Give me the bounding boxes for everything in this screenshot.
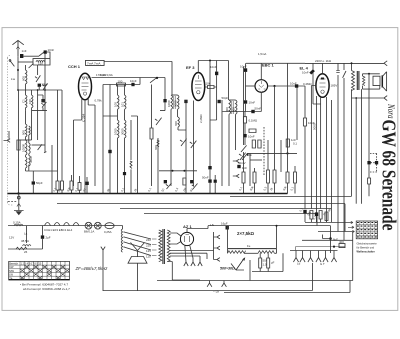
resistor 0,1uF 289 — [286, 139, 289, 147]
svg-text:10nF: 10nF — [249, 101, 256, 105]
rail output y63 — [305, 62, 384, 64]
wire 245 tail — [245, 72, 247, 100]
wire field choke left — [227, 226, 229, 254]
trimmer 193 — [190, 141, 197, 148]
trimmer 192 — [192, 184, 198, 190]
wire rail1 drop x172 — [171, 61, 173, 95]
socket table cols — [360, 221, 374, 239]
field choke winding R — [258, 251, 274, 254]
wire primary top — [351, 63, 353, 70]
wire col320 — [320, 97, 322, 209]
svg-text:C1: C1 — [22, 99, 26, 103]
wire 215 stub — [214, 175, 216, 194]
antenna A — [12, 40, 23, 56]
switch band mid2 — [44, 145, 46, 153]
wire col345 — [344, 204, 346, 232]
wire secondary tap 2 — [170, 253, 207, 259]
coil 600 antenna — [26, 65, 28, 90]
capacitor C-ant 1nF — [20, 54, 23, 58]
node Lw — [17, 69, 19, 71]
svg-text:Wellenschalter: Wellenschalter — [357, 250, 375, 254]
svg-text:10nF: 10nF — [48, 48, 55, 52]
capacitor 10nF blob b — [214, 180, 217, 183]
capacitor blob ant2 — [44, 50, 47, 53]
wire selector to loop — [137, 263, 139, 291]
wire 50pF stub — [32, 171, 34, 194]
heater arc EBC1 — [64, 223, 70, 226]
svg-text:10nF: 10nF — [240, 65, 247, 69]
wire 8uF drop — [330, 226, 332, 253]
wire 2uF column — [42, 226, 44, 249]
wire col305 — [304, 86, 306, 118]
wire col57 — [57, 90, 59, 181]
heater arc EF3 — [54, 223, 60, 226]
svg-text:AZ 1: AZ 1 — [183, 224, 192, 229]
CCH1 internal electrodes — [82, 77, 89, 95]
AZ1 internals — [185, 235, 190, 243]
pot arrow vol — [242, 67, 248, 173]
arrow to table c — [352, 230, 354, 232]
wire second rail y249 — [8, 248, 43, 250]
svg-text:CCH1 EF3 EBC1 EL4: CCH1 EF3 EBC1 EL4 — [44, 228, 73, 232]
wire col352 — [352, 232, 354, 281]
resistor r79 — [78, 176, 81, 194]
speaker terminal fork 2 — [214, 246, 220, 250]
wire secondary bottom tap — [167, 262, 200, 281]
dashed link bottom — [370, 171, 377, 173]
node y90 a — [17, 89, 19, 91]
resistor r326b — [325, 212, 328, 222]
wire speaker bottom rail — [352, 97, 385, 99]
heater fork b — [191, 262, 195, 266]
svg-text:3000: 3000 — [120, 128, 124, 135]
svg-text:CCH 1: CCH 1 — [68, 64, 81, 69]
resistor 400ohm box — [339, 244, 345, 248]
speaker magnet bar — [381, 75, 383, 87]
wire col369 lower — [368, 184, 370, 196]
socket table rows — [356, 225, 377, 236]
capacitor blob fork — [237, 165, 240, 168]
wire selector feed — [122, 226, 124, 230]
capacitor 2uF blob — [41, 235, 44, 238]
ground bus — [7, 193, 288, 195]
svg-text:• Bei Fernempf. 6304687–7027: • Bei Fernempf. 6304687–7027 4,7 — [20, 283, 68, 287]
trimmer IF2 — [239, 153, 246, 160]
coil L4 3000 — [29, 143, 30, 171]
resistor r320b — [319, 211, 322, 223]
svg-text:1,0: 1,0 — [263, 263, 267, 267]
table columns — [20, 261, 65, 280]
wire y160 — [250, 159, 262, 161]
svg-text:~ Lb: ~ Lb — [213, 290, 219, 294]
wire col351 down — [351, 98, 353, 196]
svg-text:Bereich: Bereich — [9, 262, 18, 266]
wire col281 — [280, 140, 282, 172]
coil IF1a — [171, 95, 173, 186]
resistor R-left 1 — [17, 140, 20, 150]
svg-text:185V: 185V — [331, 84, 338, 88]
svg-text:400: 400 — [339, 240, 344, 244]
resistor 10k EF3 — [205, 86, 217, 89]
node primary top — [351, 62, 353, 64]
wire 10nF drop 245 — [245, 63, 247, 68]
node y171 b — [183, 170, 185, 172]
wire 165 drop — [160, 95, 165, 111]
field choke core — [228, 248, 276, 250]
wire top IF1 — [172, 94, 178, 96]
wire EF3 plate top — [198, 61, 228, 101]
tube EF3 — [192, 73, 205, 101]
coil osc 3000 — [125, 120, 127, 172]
svg-text:220: 220 — [146, 244, 151, 248]
node y90 c — [44, 89, 46, 91]
node circle ground — [17, 196, 20, 199]
capacitor box 50 — [259, 258, 262, 268]
wire col52 — [51, 145, 53, 194]
svg-text:600: 600 — [154, 145, 158, 150]
svg-text:220V o. 2kΩ: 220V o. 2kΩ — [315, 59, 332, 63]
capacitor 10nF diagonal blob — [309, 69, 315, 74]
coil pair 900 — [26, 124, 28, 140]
wire AZ1 cathode out — [187, 226, 208, 233]
resistor r295 — [294, 166, 297, 194]
rail y203 — [57, 203, 345, 205]
wire rail2 x140 drop — [139, 78, 141, 85]
switch S-ant — [39, 52, 45, 56]
wire blob87 stub — [86, 177, 88, 194]
table X marks r2 — [25, 265, 65, 268]
switch band mid — [38, 144, 42, 150]
capacitor blob dash a — [367, 161, 370, 164]
wire ground drop — [18, 194, 20, 211]
switch vol — [241, 145, 247, 152]
svg-text:101: 101 — [120, 102, 124, 107]
wire EBC left rail — [246, 85, 255, 87]
node 330 — [329, 237, 332, 240]
svg-text:28pF: 28pF — [42, 83, 49, 87]
dashed vert right — [376, 154, 378, 173]
svg-text:170 kHz: 170 kHz — [96, 73, 107, 77]
resistor r62 — [61, 181, 64, 194]
rail y208 — [120, 208, 332, 210]
resistor r268 — [267, 140, 270, 194]
svg-text:400: 400 — [225, 107, 229, 112]
svg-text:600: 600 — [22, 76, 26, 81]
fork row 2 — [300, 251, 305, 263]
hum pot wire — [231, 264, 244, 271]
svg-text:1000: 1000 — [167, 100, 171, 107]
wire col193 — [193, 101, 195, 187]
svg-text:3000: 3000 — [29, 156, 33, 163]
wire 124 tail — [124, 175, 126, 193]
svg-text:für Bereich und: für Bereich und — [357, 246, 375, 250]
node 400 link — [333, 246, 335, 248]
resistor r311b — [310, 211, 313, 223]
lamp 1 cross — [86, 223, 91, 228]
input coil box 150 — [33, 59, 50, 65]
resistor r287 — [286, 172, 289, 194]
wire secondary bottom — [363, 86, 380, 90]
output transformer core — [357, 71, 359, 90]
vert coil 600 — [157, 138, 159, 194]
tube AZ1 — [180, 232, 193, 245]
resistor box 305 — [303, 118, 306, 209]
grid rail y77 from CCH1 — [92, 77, 166, 79]
trimmer IF1 — [180, 139, 187, 146]
dial lamp 1 — [85, 222, 92, 229]
wire IF2 top — [229, 99, 236, 101]
capacitor blob 316b — [315, 212, 318, 216]
svg-text:10k: 10k — [206, 82, 211, 86]
svg-text:50pF: 50pF — [36, 181, 43, 185]
svg-text:10nF: 10nF — [302, 71, 309, 75]
svg-text:LW: LW — [9, 273, 13, 277]
coil L1 101 — [26, 90, 28, 111]
capacitor blob 219 — [218, 100, 221, 103]
coil 150 bumps — [36, 61, 45, 62]
trimmer 165 — [166, 183, 172, 189]
wire choke mid — [245, 252, 259, 254]
wire col245 b — [244, 123, 246, 134]
svg-text:Nora: Nora — [386, 103, 396, 119]
coil osc 1000 — [118, 120, 120, 194]
fork row 5 — [323, 251, 328, 263]
wire col151 — [151, 85, 153, 187]
svg-text:1nF: 1nF — [22, 49, 27, 53]
wire col326 — [326, 97, 328, 222]
wire col317 — [316, 214, 318, 226]
wire col137 — [137, 116, 139, 194]
heater fork c — [198, 262, 202, 266]
capacitor blob dash b — [375, 161, 378, 164]
tube EL4 — [316, 74, 329, 98]
heater rail left — [8, 225, 123, 227]
svg-text:110: 110 — [146, 255, 151, 259]
capacitor 50 series 338 — [336, 71, 339, 73]
connector fork b — [233, 174, 239, 178]
wire y171 — [26, 170, 58, 172]
switch band 2 — [29, 63, 34, 68]
trimmer 43 — [37, 95, 46, 111]
EL4 internals — [320, 79, 326, 93]
capacitor 10nF blob right — [295, 84, 298, 87]
wire col245 — [244, 112, 246, 117]
capacitor box small — [249, 129, 256, 133]
wire col356 — [355, 98, 357, 204]
arrow to table b — [348, 226, 354, 228]
wire col287 — [287, 63, 289, 172]
svg-text:10nF: 10nF — [248, 135, 255, 139]
selector housing — [128, 257, 147, 264]
wire col250 — [249, 153, 251, 186]
trimmer T1 — [35, 75, 40, 82]
wire x165 drop — [164, 78, 166, 96]
wire col297 — [296, 88, 298, 141]
wire y116 seg1 — [103, 115, 138, 117]
capacitor blob 192 low — [190, 180, 193, 183]
coil IF2b — [236, 100, 238, 150]
capacitor blob 165 low — [164, 180, 167, 183]
tube CCH1 — [79, 73, 92, 100]
node y90 b — [37, 89, 39, 91]
heater fork a — [184, 262, 188, 266]
node speaker top — [368, 73, 370, 75]
table wave-ranges outline — [9, 261, 70, 280]
wire EL4 grid feed — [313, 63, 321, 104]
socket table grid — [356, 221, 377, 239]
rail y231 — [318, 231, 353, 233]
coil IF1b — [178, 95, 180, 117]
wire col361 — [361, 89, 363, 204]
wire step 322 — [323, 235, 331, 239]
svg-text:2×7,5kΩ: 2×7,5kΩ — [237, 231, 255, 236]
svg-text:900: 900 — [22, 130, 26, 135]
wire col245 c — [244, 137, 246, 145]
wire secondary to AZ1 anode b — [170, 242, 181, 245]
dial lamp 2 — [94, 222, 101, 229]
wire AZ1 heater drop — [185, 245, 193, 262]
svg-text:ab Fernempf. 630369–2068 2+1: ab Fernempf. 630369–2068 2+1,7 — [23, 287, 70, 291]
coil L3 10000 — [26, 140, 28, 171]
node y153 — [286, 152, 288, 154]
voltage selector coil — [121, 229, 122, 252]
svg-text:2µF: 2µF — [46, 236, 51, 240]
wire left main column — [18, 90, 20, 194]
svg-text:1 2 3 4 5 6 7 8 9 10: 1 2 3 4 5 6 7 8 9 10 — [21, 262, 42, 265]
wire caps top — [252, 253, 283, 271]
resistor zig 131 — [130, 120, 132, 194]
capacitor blob pair 210 — [208, 166, 211, 169]
svg-text:50nF: 50nF — [202, 176, 209, 180]
power transformer primary — [159, 230, 162, 262]
wire y145 — [32, 144, 46, 146]
node col356 — [355, 97, 357, 99]
dashed link top — [370, 153, 377, 155]
rail EBC top y63 — [246, 62, 305, 64]
selector fan 110 — [124, 247, 151, 256]
wire col316 — [316, 96, 318, 222]
fuse resistor bumps — [14, 224, 23, 226]
anode rail y61 — [104, 61, 172, 63]
wire EBC right rail y86 — [268, 85, 305, 87]
node choke right — [276, 225, 278, 227]
svg-text:C 254: C 254 — [81, 113, 85, 122]
svg-text:EBC 1: EBC 1 — [262, 63, 275, 68]
coil osc 100a — [118, 85, 120, 121]
capacitor 16uF blob — [226, 226, 229, 230]
hum pot arrow — [236, 258, 245, 270]
resistor 151 — [150, 128, 153, 139]
dashed wire to frame — [8, 201, 17, 203]
switch on rail2 — [150, 78, 156, 83]
connector fork a — [233, 159, 239, 163]
table X marks r5 — [20, 276, 60, 279]
fuse 0,25A — [105, 223, 114, 229]
box 7mA measure — [86, 60, 105, 65]
svg-text:600: 600 — [174, 121, 178, 126]
resistor r243 — [242, 172, 245, 194]
svg-text:0,4MΩ: 0,4MΩ — [303, 82, 312, 86]
svg-text:150: 150 — [38, 62, 43, 66]
resistor osc 100 — [117, 83, 126, 86]
switch 344 — [343, 63, 346, 240]
svg-text:26: 26 — [24, 250, 28, 254]
wire fork row vert — [312, 263, 314, 291]
capacitor 10nF blob 245 — [244, 68, 247, 72]
selector fan 240 — [124, 232, 151, 239]
socket table fill marks — [357, 223, 377, 237]
svg-text:240: 240 — [146, 238, 151, 242]
capacitor blob 186 — [184, 100, 187, 103]
rail y250 forks — [290, 250, 338, 252]
svg-text:ZF=468/±7,5kHz: ZF=468/±7,5kHz — [75, 266, 109, 271]
wire secondary to AZ1 anode a — [170, 233, 181, 236]
svg-text:400: 400 — [231, 107, 235, 112]
svg-text:8µF: 8µF — [333, 238, 338, 242]
wire y110 — [26, 111, 48, 124]
wire secondary top to box — [363, 74, 380, 76]
lamp 2 cross — [96, 223, 101, 228]
wire secondary tap 1 — [170, 250, 214, 252]
wire mains stub b — [223, 281, 225, 283]
wire col369 — [368, 74, 370, 178]
svg-text:0,1MΩ: 0,1MΩ — [249, 119, 258, 123]
EF3 internals — [195, 75, 202, 94]
coil IF2a — [229, 100, 231, 186]
wire bus y90 — [18, 89, 62, 91]
connector fork speaker bottom — [384, 96, 387, 101]
heater arc EL4 — [73, 223, 79, 226]
svg-text:50k: 50k — [247, 153, 252, 157]
resistor 0,1M — [243, 117, 246, 123]
wire col331 — [331, 100, 333, 209]
capacitor blob 124 — [123, 172, 126, 175]
capacitor blob 43 — [41, 99, 44, 102]
resistor r71 — [70, 175, 73, 194]
selector fan 125 — [124, 242, 151, 250]
wire 400ohm link — [296, 247, 346, 251]
svg-text:10nF: 10nF — [290, 82, 297, 86]
capacitor blob 165 — [163, 99, 166, 102]
wire y111 — [223, 111, 262, 113]
resistor bumps 26 — [23, 245, 31, 246]
svg-text:MW: MW — [9, 269, 14, 273]
svg-text:0,78k: 0,78k — [95, 99, 103, 103]
primary taps — [152, 239, 157, 256]
wire col110 — [109, 85, 111, 194]
wire CCH1 cathode down — [84, 100, 86, 194]
arrowhead ground — [17, 204, 21, 207]
wire EL4 grid left — [311, 86, 316, 101]
svg-text:50nF: 50nF — [255, 107, 262, 111]
tube EBC1 circle — [255, 80, 268, 93]
speaker terminal fork 3 — [214, 258, 220, 262]
switch Lw left — [9, 60, 14, 67]
svg-text:50mV: 50mV — [238, 161, 246, 165]
wire EL4 plate top — [322, 63, 324, 73]
wire y140 left — [19, 139, 32, 141]
trimmer T2 — [42, 83, 47, 90]
EBC1 internals — [258, 81, 265, 92]
svg-text:La: La — [24, 232, 28, 236]
resistor zig y249 — [16, 247, 27, 250]
svg-text:10nF: 10nF — [130, 79, 137, 83]
node bus left — [17, 192, 19, 194]
wire 331b tail — [331, 209, 333, 222]
svg-text:3000: 3000 — [173, 100, 177, 107]
B+ rail y225 — [208, 225, 331, 227]
svg-text:16µF: 16µF — [221, 222, 228, 226]
